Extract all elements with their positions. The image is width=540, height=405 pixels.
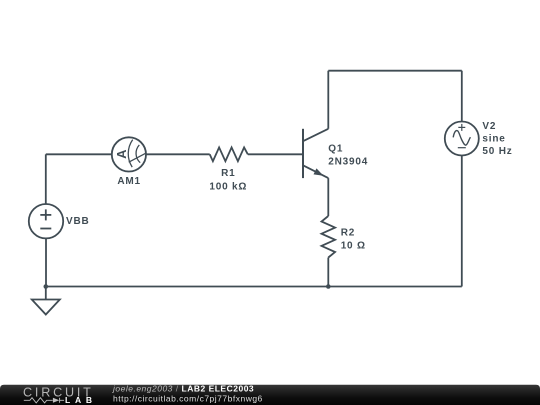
wire bbox=[248, 153, 303, 155]
svg-text:LAB: LAB bbox=[65, 395, 97, 405]
svg-text:Q1: Q1 bbox=[328, 143, 343, 154]
wire bbox=[327, 258, 329, 287]
wire bbox=[328, 70, 462, 72]
wire bbox=[45, 238, 47, 286]
footer bar bbox=[0, 384, 540, 405]
svg-text:R2: R2 bbox=[341, 227, 355, 238]
svg-text:50 Hz: 50 Hz bbox=[482, 146, 512, 157]
wire bbox=[461, 156, 463, 287]
wire bbox=[461, 71, 463, 122]
wire bbox=[46, 286, 462, 288]
logo diode bbox=[53, 398, 64, 403]
ground bbox=[32, 287, 60, 315]
svg-text:sine: sine bbox=[482, 134, 505, 145]
svg-text:2N3904: 2N3904 bbox=[328, 156, 368, 167]
logo resistor zigzag bbox=[24, 398, 53, 403]
svg-text:joele.eng2003 / LAB2 ELEC2003: joele.eng2003 / LAB2 ELEC2003 bbox=[112, 384, 254, 394]
svg-text:V2: V2 bbox=[482, 121, 496, 132]
transistor Q1 bbox=[303, 129, 328, 178]
svg-text:10 Ω: 10 Ω bbox=[341, 240, 366, 251]
node junction at ground bbox=[44, 284, 49, 289]
svg-text:100 kΩ: 100 kΩ bbox=[209, 182, 247, 193]
wire bbox=[45, 154, 47, 204]
svg-text:http://circuitlab.com/c7pj77bf: http://circuitlab.com/c7pj77bfxnwg6 bbox=[113, 393, 263, 403]
wire bbox=[46, 153, 112, 155]
svg-text:R1: R1 bbox=[221, 168, 235, 179]
node junction R2/bottom rail bbox=[326, 284, 331, 289]
ammeter AM1 bbox=[112, 137, 146, 171]
svg-text:A: A bbox=[114, 149, 129, 159]
svg-text:VBB: VBB bbox=[66, 216, 90, 227]
resistor R2 bbox=[322, 216, 336, 258]
voltage source V2 bbox=[445, 122, 479, 156]
resistor R1 bbox=[210, 147, 248, 161]
voltage source VBB bbox=[29, 204, 63, 238]
wire bbox=[146, 153, 210, 155]
svg-text:AM1: AM1 bbox=[117, 176, 141, 187]
wire bbox=[327, 178, 329, 216]
wire bbox=[327, 71, 329, 129]
